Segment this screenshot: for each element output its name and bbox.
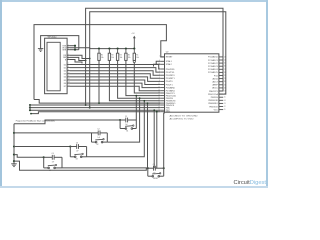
wire LCD D5 to MCU PD5: [70, 80, 160, 85]
node RW junction: [85, 60, 87, 62]
svg-text:20: 20: [224, 81, 226, 83]
wire loop B left rail: [91, 133, 93, 142]
node rail branch C: [13, 145, 15, 147]
wire button A to MCU row: [135, 96, 137, 120]
wire loop A right rail: [135, 120, 137, 129]
svg-text:GND: GND: [166, 112, 171, 114]
wire bus tie vertical: [29, 105, 31, 110]
svg-text:D1: D1: [64, 67, 66, 69]
capacitor C2: [92, 132, 99, 134]
wire rail jog to button D net: [14, 161, 148, 170]
svg-text:18: 18: [224, 87, 226, 89]
wire bus2 from programmer header: [30, 107, 160, 109]
resistor R1: [133, 49, 135, 54]
svg-text:PB2/SS: PB2/SS: [211, 97, 219, 99]
svg-text:PC4/ADC4: PC4/ADC4: [208, 68, 219, 71]
svg-text:VEE: VEE: [62, 49, 67, 51]
svg-text:PB3/MOSI: PB3/MOSI: [208, 100, 218, 102]
wire rail branch to button A net: [14, 120, 120, 124]
push button RESET: [148, 175, 153, 177]
svg-text:ADC6: ADC6: [212, 77, 218, 80]
svg-text:PD6/AIN0: PD6/AIN0: [166, 86, 176, 89]
svg-text:PB1/OC1A: PB1/OC1A: [166, 94, 176, 97]
wire VSS pin to node: [70, 45, 75, 47]
svg-text:C5: C5: [153, 164, 155, 166]
node rail branch E: [13, 154, 15, 156]
wire LCD D6 to MCU PD6: [70, 83, 160, 88]
wire loop C left rail: [69, 147, 71, 157]
capacitor C3: [70, 146, 76, 148]
node VSS junction: [74, 45, 76, 47]
node button C top-left: [69, 145, 71, 147]
svg-text:10k: 10k: [101, 57, 104, 59]
wire R5 bottom to MCU pin: [126, 60, 160, 95]
svg-text:CircuitDigest: CircuitDigest: [234, 180, 267, 186]
node bus4 left end: [30, 113, 32, 115]
wire LCD D7 to MCU PD7: [70, 86, 160, 91]
wire bus1 from programmer header: [30, 104, 160, 106]
svg-text:C4: C4: [52, 153, 54, 155]
wire RESET branch to MCU row: [34, 100, 160, 104]
svg-text:ALCMPXXL TO VDD: ALCMPXXL TO VDD: [170, 118, 195, 121]
node rail junction R2: [98, 48, 100, 50]
svg-text:RESET: RESET: [166, 57, 173, 59]
node VEE junction: [74, 49, 76, 51]
svg-text:+5V: +5V: [131, 33, 135, 35]
resistor R3: [108, 49, 110, 54]
svg-text:PC6: PC6: [214, 75, 219, 77]
wire loop C right rail: [86, 147, 88, 157]
svg-text:10k: 10k: [120, 57, 123, 59]
svg-text:R3: R3: [111, 55, 113, 57]
svg-text:PC0/ADC0: PC0/ADC0: [208, 56, 219, 59]
wire RW step: [70, 57, 86, 60]
svg-text:11: 11: [224, 109, 226, 111]
svg-text:AVCC: AVCC: [212, 87, 218, 90]
node W2 bus2 junction: [89, 107, 91, 109]
LCD screen area: [47, 42, 60, 91]
svg-text:PD1/TXD: PD1/TXD: [166, 72, 175, 74]
wire RS step: [70, 55, 90, 58]
wire R1 terminal to MCU pin row: [134, 63, 160, 93]
svg-text:1nF: 1nF: [98, 137, 101, 139]
svg-text:19: 19: [224, 84, 226, 86]
svg-text:12: 12: [224, 106, 226, 108]
resistor R2: [98, 49, 100, 54]
svg-text:22: 22: [224, 75, 226, 77]
svg-text:PC1/ADC1: PC1/ADC1: [208, 59, 219, 62]
svg-text:D0: D0: [64, 64, 66, 66]
wire loop B right rail: [106, 133, 108, 142]
wire R3 bottom to MCU pin: [109, 60, 160, 100]
wire loop E right rail: [61, 157, 63, 168]
svg-text:D6: D6: [64, 83, 66, 85]
svg-text:D3: D3: [64, 74, 66, 76]
svg-text:PC2/ADC2: PC2/ADC2: [208, 62, 219, 65]
svg-text:B2: B2: [97, 144, 99, 146]
svg-text:23: 23: [224, 56, 226, 58]
svg-text:24: 24: [224, 60, 226, 62]
wire button E to MCU row: [62, 103, 148, 168]
wire XTAL1 stub: [156, 61, 160, 64]
svg-text:ADCMUX TO GROUND: ADCMUX TO GROUND: [170, 115, 199, 118]
wire rail branch to button B net: [14, 132, 92, 134]
node v2 row junction: [156, 111, 158, 113]
svg-text:PC3/ADC3: PC3/ADC3: [208, 65, 219, 68]
svg-text:AREF: AREF: [212, 84, 218, 87]
node rail junction R1: [133, 48, 135, 50]
wire XTAL2 stub: [154, 64, 161, 66]
terminal circle below R1: [133, 60, 135, 62]
IC U2 left pin stubs and labels: [160, 56, 164, 58]
wire LCD D3 to MCU PD3: [70, 74, 160, 79]
svg-text:D2: D2: [64, 70, 66, 72]
wire ground rail vertical: [13, 124, 15, 164]
svg-text:VCC: VCC: [214, 109, 219, 111]
node bus3 left end: [29, 109, 31, 111]
wire MCU row to reset circuit v2: [156, 112, 158, 169]
wire E step: [70, 60, 82, 64]
push button B1: [120, 128, 126, 130]
power terminal +5V: [133, 38, 135, 49]
node bus1 left end: [29, 104, 31, 106]
wire node down to VEE row: [74, 46, 76, 50]
node button A top-left: [119, 119, 121, 121]
wire VSS-VEE ground net: [41, 36, 79, 50]
svg-text:26: 26: [224, 66, 226, 68]
wire rail jog to button E net: [14, 155, 44, 158]
node rail junction R3: [108, 48, 110, 50]
svg-text:17: 17: [224, 91, 226, 93]
svg-text:14: 14: [224, 100, 226, 102]
wire button D net up to MCU corner: [164, 113, 165, 168]
wire VEE row: [70, 49, 79, 51]
node v1 row junction: [153, 109, 155, 111]
svg-text:PD0/RXD: PD0/RXD: [166, 69, 175, 71]
node rail branch D: [13, 160, 15, 162]
ground G1: [38, 48, 43, 50]
node rail branch B: [13, 132, 15, 134]
svg-text:27: 27: [224, 69, 226, 71]
svg-text:PD2/INT0: PD2/INT0: [166, 75, 176, 77]
svg-text:B3: B3: [76, 159, 78, 161]
svg-text:1: 1: [159, 56, 160, 58]
svg-text:PD3/INT1: PD3/INT1: [166, 78, 176, 80]
wire R2 bottom to MCU pin: [99, 60, 160, 103]
svg-text:R1: R1: [136, 55, 138, 57]
wire LCD D2 to MCU PD2: [70, 71, 160, 76]
svg-text:10k: 10k: [128, 57, 131, 59]
wire bus3 from programmer header: [30, 109, 160, 111]
svg-text:XTAL1: XTAL1: [166, 60, 173, 63]
wire VCC rail: [90, 48, 135, 50]
wire RESET top route: [34, 25, 166, 100]
node button E top-left: [43, 156, 45, 158]
LCD module LCD1 body: [45, 38, 68, 93]
svg-text:Programmer Pins(Master Slave c: Programmer Pins(Master Slave communicati…: [16, 120, 55, 123]
svg-text:D4: D4: [64, 77, 66, 79]
svg-text:C3: C3: [76, 142, 78, 144]
wire LCD D1 to MCU PD1: [70, 68, 160, 73]
svg-text:ADC7: ADC7: [212, 81, 218, 84]
node bus2 left end: [29, 107, 31, 109]
capacitor C4: [44, 156, 53, 158]
wire LCD D4 to MCU PD4: [70, 77, 160, 82]
svg-text:10k: 10k: [111, 57, 114, 59]
node button D top-right: [163, 167, 165, 169]
wire loop A left rail: [119, 120, 121, 129]
svg-text:PD5/T1: PD5/T1: [166, 84, 174, 86]
ground G2: [11, 163, 17, 165]
wire VDD pin to VCC rail: [70, 47, 90, 50]
svg-text:C1: C1: [125, 116, 127, 118]
svg-text:PD4/T0: PD4/T0: [166, 81, 174, 83]
wire button C to MCU row: [87, 101, 145, 157]
svg-text:PC5/ADC5: PC5/ADC5: [208, 71, 219, 74]
svg-text:C2: C2: [97, 129, 99, 131]
node button D top-left: [147, 167, 149, 169]
resistor R5: [125, 49, 127, 54]
svg-text:D7: D7: [64, 86, 66, 88]
svg-text:R5: R5: [128, 55, 130, 57]
svg-text:10k: 10k: [136, 57, 139, 59]
IC U2 ATMEGA8 body: [165, 54, 219, 112]
push button B4: [44, 167, 49, 169]
svg-text:1nF: 1nF: [76, 151, 79, 153]
svg-text:R2: R2: [101, 55, 103, 57]
svg-text:13: 13: [224, 103, 226, 105]
IC U2 right pin stubs and labels: [219, 56, 223, 58]
node rail junction R5: [125, 48, 127, 50]
resistor R4: [117, 49, 119, 54]
svg-text:XTAL2: XTAL2: [166, 63, 173, 66]
svg-text:B4: B4: [49, 170, 51, 172]
wire loop E left rail: [43, 157, 45, 168]
wire loop D right rail: [163, 168, 165, 176]
svg-text:RESET: RESET: [153, 178, 158, 180]
wire rail branch to button C net: [14, 146, 70, 148]
LCD pin stubs: [67, 45, 70, 47]
svg-text:PB4/MISO: PB4/MISO: [208, 103, 218, 105]
wire loop W1 MCU right pin over top to bus1: [86, 8, 223, 105]
capacitor C1: [120, 119, 126, 121]
push button B2: [92, 141, 97, 143]
svg-text:16: 16: [224, 94, 226, 96]
svg-text:PB1/OC1A: PB1/OC1A: [208, 93, 218, 96]
wire R4 bottom to MCU pin: [118, 60, 161, 98]
svg-text:D5: D5: [64, 80, 66, 82]
capacitor C5: [148, 167, 154, 169]
node RS junction: [89, 58, 91, 60]
svg-text:R4: R4: [120, 55, 122, 57]
wire button B to MCU row: [107, 98, 139, 142]
svg-text:15: 15: [224, 97, 226, 99]
svg-text:21: 21: [224, 78, 226, 80]
wire MCU row to reset circuit v1: [153, 110, 155, 168]
node W1 bus1 junction: [85, 104, 87, 106]
wire bus4 stepped: [31, 112, 160, 114]
svg-text:PB5/SCK: PB5/SCK: [209, 106, 218, 108]
svg-text:1nF: 1nF: [52, 162, 55, 164]
node rail junction R4: [117, 48, 119, 50]
push button B3: [70, 156, 75, 158]
svg-text:U2: U2: [166, 51, 170, 53]
wire loop D left rail: [147, 168, 149, 176]
wire LCD D0 to MCU PD0: [70, 65, 160, 70]
svg-text:28: 28: [224, 72, 226, 74]
wire loop W2 MCU right pin over top to bus2: [90, 12, 226, 108]
svg-text:B1: B1: [126, 130, 128, 132]
node R2 wire junction on row: [98, 102, 100, 104]
svg-text:PB0/ICP1: PB0/ICP1: [209, 91, 219, 93]
svg-text:25: 25: [224, 63, 226, 65]
